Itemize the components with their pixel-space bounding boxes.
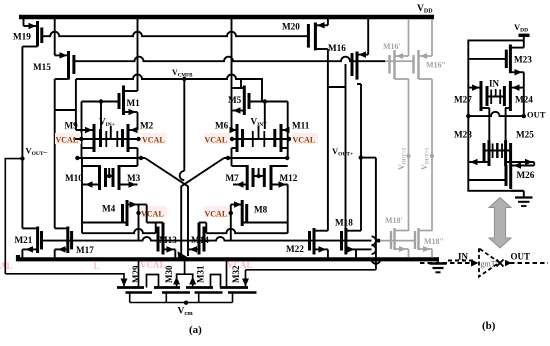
ground symbol (part a) bbox=[437, 259, 439, 264]
wire Vcm gate bus bbox=[130, 302, 233, 304]
equivalence arrow (gray double arrow) bbox=[489, 198, 511, 249]
node left bus dot right bbox=[139, 156, 143, 160]
wire M15 gate bus to M16 gate bbox=[74, 57, 386, 62]
svg-text:M4: M4 bbox=[102, 204, 116, 214]
transistor M2 bbox=[123, 124, 138, 158]
transistor M23 bbox=[506, 45, 524, 88]
node right bus dots bbox=[285, 156, 289, 160]
svg-text:VCAL: VCAL bbox=[141, 210, 164, 219]
wire M20 drain / M22 drain vertical bbox=[327, 49, 329, 231]
node M5 gate dot bbox=[263, 99, 267, 103]
transistor M16 bbox=[352, 17, 368, 84]
svg-text:M26: M26 bbox=[517, 170, 535, 180]
svg-text:M25: M25 bbox=[516, 130, 534, 140]
transistor M19 bbox=[22, 17, 41, 47]
wire M28 M25 gate coupling bbox=[484, 150, 511, 152]
wire left cell gate line with VCAL taps bbox=[74, 138, 141, 140]
highlight left VCAL bg bbox=[55, 133, 81, 144]
svg-text:M21: M21 bbox=[15, 235, 33, 245]
svg-text:VCAL: VCAL bbox=[293, 136, 316, 145]
wire M5 gate dot stub down bbox=[264, 102, 266, 130]
svg-text:M27: M27 bbox=[454, 95, 472, 105]
transistor M32 bbox=[220, 259, 257, 302]
transistor M14 bbox=[188, 223, 206, 255]
transistor M18'' (gray) bbox=[415, 228, 432, 258]
transistor M7 bbox=[232, 158, 254, 190]
wire VCMFB line bbox=[76, 75, 262, 102]
svg-text:M16″: M16″ bbox=[426, 60, 446, 69]
svg-text:M32: M32 bbox=[231, 265, 241, 283]
wire right cell mid bus bbox=[224, 157, 288, 159]
svg-text:VCAL: VCAL bbox=[205, 210, 228, 219]
svg-text:M18″: M18″ bbox=[424, 237, 444, 246]
transistor M3 bbox=[113, 158, 138, 190]
wire VOUT- sense line to M29 bbox=[5, 274, 124, 286]
op-amp gmT (dashed triangle) bbox=[479, 248, 499, 276]
node VOUT- junction dot bbox=[20, 156, 24, 160]
transistor M17 bbox=[55, 227, 72, 258]
wire tail stem and bridge M30-M31 bbox=[177, 274, 193, 287]
wire left cell inner fingers bbox=[105, 131, 107, 147]
svg-text:M1: M1 bbox=[127, 98, 141, 108]
wire VOUT- vertical (M19 drain to M21 drain) bbox=[21, 47, 23, 229]
wire ground stem (part b) bbox=[523, 191, 525, 197]
wire IN gate structure bbox=[487, 96, 504, 98]
node M1 gate dot bbox=[99, 99, 103, 103]
wire right cell inner fingers bbox=[252, 131, 254, 147]
wire vertical V2 rail to M5 drain bbox=[231, 17, 233, 111]
svg-text:M22: M22 bbox=[286, 244, 304, 254]
wire M1 gate dropper to VCAL dot bbox=[81, 102, 83, 159]
wire VOUT+ sense line bbox=[246, 269, 376, 271]
wire right cell gate line with VCAL taps bbox=[231, 138, 291, 140]
transistor M16'' (gray) bbox=[414, 19, 433, 79]
highlight VCAL bg (M6 side) bbox=[204, 133, 230, 144]
node VCMFB dot bbox=[182, 77, 186, 81]
svg-text:IN: IN bbox=[489, 79, 500, 89]
transistor M9 bbox=[76, 124, 101, 152]
VDD bar (part b) bbox=[519, 34, 530, 37]
wire VIN+ stem bbox=[110, 126, 112, 139]
svg-text:L: L bbox=[94, 261, 100, 271]
transistor M31 bbox=[186, 288, 223, 303]
svg-text:M10: M10 bbox=[65, 173, 83, 183]
VDD rail (part a) bbox=[19, 15, 434, 20]
transistor M26 bbox=[506, 162, 534, 191]
svg-text:(b): (b) bbox=[482, 320, 496, 332]
wire VDD stem and left rail (part b) bbox=[468, 35, 524, 191]
wire gray gate bus bottom bbox=[381, 240, 415, 242]
node VCAL dot left bbox=[79, 137, 83, 141]
node VCAL dot (M6 side) bbox=[230, 137, 234, 141]
wire M10 source down bbox=[81, 185, 83, 234]
wire M14 to M8 link (lower route) bbox=[206, 229, 287, 233]
svg-text:VCAL: VCAL bbox=[205, 136, 228, 145]
transistor M27 bbox=[468, 81, 489, 111]
wire dashed output bbox=[510, 262, 548, 264]
svg-text:M20: M20 bbox=[282, 22, 300, 32]
wire M23 gate lead bbox=[468, 58, 506, 60]
svg-text:VCAL: VCAL bbox=[142, 136, 165, 145]
wire VIN- stem bbox=[258, 126, 260, 139]
wire VCMFB center vertical to X node bbox=[183, 79, 185, 171]
wire M6 source vertical bbox=[231, 111, 233, 131]
svg-text:M13: M13 bbox=[159, 235, 177, 245]
wire M5 gate dropper (right) bbox=[287, 102, 289, 159]
highlight M8 VCAL bg bbox=[204, 206, 230, 217]
svg-text:M9: M9 bbox=[65, 121, 79, 131]
svg-text:OUT: OUT bbox=[511, 252, 531, 262]
svg-text:M17: M17 bbox=[76, 245, 94, 255]
transistor M6 bbox=[230, 124, 243, 158]
wire OUT line (part b) bbox=[468, 112, 524, 116]
transistor M30 bbox=[154, 288, 190, 303]
node Vcm dot bbox=[184, 301, 188, 305]
ground rail (part a bottom) bbox=[18, 255, 439, 259]
svg-text:(a): (a) bbox=[189, 324, 202, 336]
node gray gate bus dot bbox=[377, 239, 381, 243]
svg-text:gmT: gmT bbox=[481, 259, 496, 268]
wire M13 to M4-source link (lower route) bbox=[82, 229, 156, 233]
svg-text:VCAL: VCAL bbox=[56, 136, 79, 145]
transistor M24 bbox=[504, 81, 523, 111]
node M4 VCAL dot bbox=[138, 205, 140, 241]
transistor M29 bbox=[117, 259, 152, 302]
amp input arrowhead bbox=[471, 260, 479, 267]
wire M16' gray gate link bbox=[380, 240, 382, 242]
svg-text:M31: M31 bbox=[196, 265, 206, 283]
transistor M18 bbox=[342, 228, 362, 258]
svg-text:M15: M15 bbox=[33, 62, 51, 72]
wire NMOS gate bus (M21 M17 M13 M14 M22 M18 to gray M18') bbox=[42, 237, 372, 241]
wire gray vertical VOUT+3 bbox=[431, 79, 433, 231]
wire M1 gate dot stub down bbox=[100, 102, 102, 130]
transistor M22 bbox=[310, 228, 328, 258]
wire diagonal left bus to X node bbox=[145, 158, 188, 186]
svg-text:M28: M28 bbox=[454, 130, 472, 140]
transistor M28 bbox=[468, 140, 489, 166]
node VOUT+2 dot bbox=[407, 154, 411, 158]
wire M18 source row hop at VOUT+ dropper bbox=[356, 248, 372, 250]
svg-text:M6: M6 bbox=[215, 121, 229, 131]
highlight VCAL bg (M11 side) bbox=[292, 133, 318, 144]
transistor M5 bbox=[232, 79, 250, 115]
transistor M10 bbox=[82, 158, 106, 190]
svg-text:M18′: M18′ bbox=[385, 216, 403, 225]
svg-text:M30: M30 bbox=[164, 265, 174, 283]
node VOUT+ dot bbox=[359, 155, 363, 159]
wire M16 drain vertical (VOUT+ node) bbox=[360, 84, 362, 231]
wire M7 M12 cross-couple bbox=[253, 175, 264, 177]
highlight right VCAL bg bbox=[141, 133, 167, 144]
transistor M1 bbox=[119, 86, 138, 131]
svg-text:M18: M18 bbox=[335, 218, 353, 228]
wire M32 sense lead with arrow bbox=[245, 270, 247, 288]
transistor M13 bbox=[147, 223, 176, 258]
svg-text:M3: M3 bbox=[127, 173, 141, 183]
wire M24 drain to OUT bbox=[523, 88, 525, 117]
svg-text:M14: M14 bbox=[191, 235, 209, 245]
transistor M16' (gray) bbox=[390, 19, 409, 79]
wire gray gate bus top bbox=[385, 60, 414, 62]
wire tail arrow at rail bbox=[178, 251, 189, 259]
svg-text:OUT: OUT bbox=[527, 110, 546, 120]
node OUT line dots bbox=[466, 114, 470, 118]
wire bridge M31-M32 bbox=[211, 275, 221, 288]
svg-text:M7: M7 bbox=[226, 173, 240, 183]
wire M10 M3 cross-couple bbox=[106, 175, 114, 177]
node VOUT+3 dot bbox=[430, 154, 434, 158]
wire bridge M29-M30 bbox=[147, 275, 159, 288]
svg-text:VCAL: VCAL bbox=[140, 260, 166, 270]
X mark at amp output bbox=[497, 260, 504, 267]
wire M26 gate lead bbox=[468, 179, 506, 181]
wire vertical V1 rail to M1 source bbox=[137, 17, 139, 91]
transistor M25 bbox=[506, 140, 535, 166]
svg-text:M5: M5 bbox=[228, 95, 242, 105]
transistor M4 bbox=[82, 200, 139, 226]
wire M15 drain vertical to M17 drain bbox=[54, 79, 56, 228]
wire gray vertical VOUT+2 bbox=[408, 79, 410, 231]
wire M28 M25 drains to OUT line bbox=[488, 108, 490, 140]
wire M29 sense arrow bbox=[121, 279, 128, 287]
transistor M8 bbox=[231, 200, 288, 233]
wire left cell mid bus bbox=[77, 157, 145, 159]
transistor M12 bbox=[264, 165, 287, 205]
svg-text:M2: M2 bbox=[140, 121, 154, 131]
svg-text:M11: M11 bbox=[292, 121, 310, 131]
svg-text:M12: M12 bbox=[280, 173, 298, 183]
wire M1 gate lead bbox=[82, 101, 120, 103]
ground symbol (part b) bbox=[515, 196, 533, 198]
wire X left vertical to ground rail bbox=[180, 186, 182, 256]
highlight M4 VCAL bg bbox=[141, 206, 167, 217]
wire dashed input bbox=[420, 262, 472, 264]
node VCAL dot right bbox=[136, 137, 140, 141]
wire X right vertical to ground rail bbox=[187, 186, 189, 256]
wire M19 gate bus to M20 gate bbox=[42, 32, 308, 36]
svg-text:VCAL: VCAL bbox=[0, 261, 13, 271]
wire VOUT- sense branch to bottom line bbox=[5, 159, 22, 274]
wire dashed ground link bbox=[448, 260, 474, 262]
wire M5 gate lead bbox=[249, 101, 288, 103]
amp output arrowhead bbox=[505, 260, 512, 267]
node left bus dot bbox=[75, 156, 79, 160]
wire M4 drain vertical to M13 bbox=[146, 205, 148, 223]
svg-text:M16: M16 bbox=[328, 43, 346, 53]
transistor M11 bbox=[275, 124, 290, 152]
svg-text:M8: M8 bbox=[254, 205, 268, 215]
svg-text:M23: M23 bbox=[514, 55, 532, 65]
wire diagonal right bus to X node bbox=[181, 158, 224, 186]
wire M20 drain jog bbox=[328, 86, 346, 88]
transistor M21 bbox=[22, 227, 41, 258]
wire branch to input cell left rail bbox=[55, 109, 76, 111]
svg-text:IN: IN bbox=[458, 252, 469, 262]
svg-text:M29: M29 bbox=[131, 265, 141, 283]
svg-text:M16′: M16′ bbox=[383, 42, 401, 51]
svg-text:M19: M19 bbox=[13, 32, 31, 42]
wire bridge arrows up bbox=[173, 277, 180, 285]
node VCAL dot (M11 side) bbox=[287, 137, 291, 141]
transistor M18' (gray) bbox=[391, 228, 409, 258]
node M8 VCAL dot bbox=[230, 205, 232, 241]
wire VOUT+ sense dropper bbox=[375, 158, 377, 270]
transistor M15 bbox=[55, 17, 74, 80]
wire VOUT+ tap to sense dropper bbox=[361, 157, 376, 159]
transistor M20 bbox=[308, 17, 328, 50]
wire mid vertical x345 to M18 drain bbox=[345, 64, 347, 231]
